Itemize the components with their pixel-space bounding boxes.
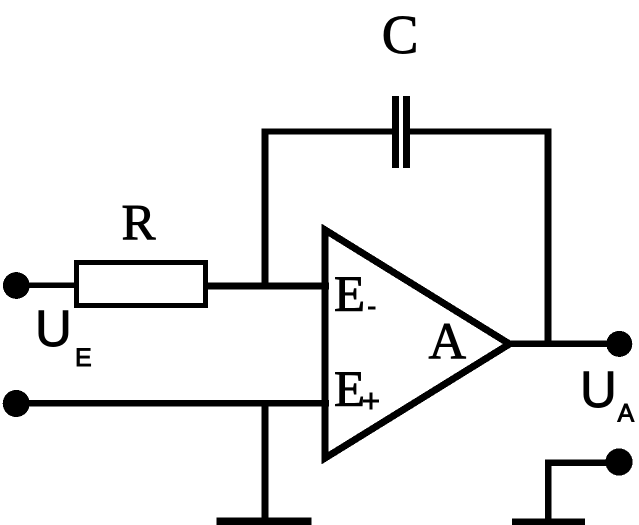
terminal input 2 [3,390,30,417]
wire ground left vertical [262,403,269,525]
svg-text:E: E [334,267,365,323]
terminal input UE [3,272,30,299]
svg-text:C: C [382,4,419,65]
wire input UE to resistor [16,283,76,289]
capacitor C [392,96,399,168]
terminal output UA [606,331,632,357]
ground bar right [512,518,585,525]
resistor R [77,263,206,306]
wire ground right horizontal [545,460,606,467]
terminal ground right [605,448,632,475]
wire capacitor left [262,128,393,134]
svg-text:U: U [35,300,72,357]
svg-text:E: E [75,344,92,372]
svg-text:R: R [122,195,156,251]
wire resistor to op-amp inverting input [205,283,329,290]
ground bar left [217,517,312,525]
wire feedback right vertical [545,128,552,344]
svg-text:A: A [618,399,635,427]
wire op-amp output [509,341,607,348]
svg-text:A: A [429,314,467,371]
wire capacitor right [410,128,551,134]
wire feedback left vertical [262,129,269,287]
svg-text:U: U [580,361,617,418]
svg-text:E: E [334,362,365,418]
wire ground right vertical [545,460,552,520]
wire input 2 to op-amp non-inverting input [16,400,329,406]
op-amp A [325,230,509,458]
